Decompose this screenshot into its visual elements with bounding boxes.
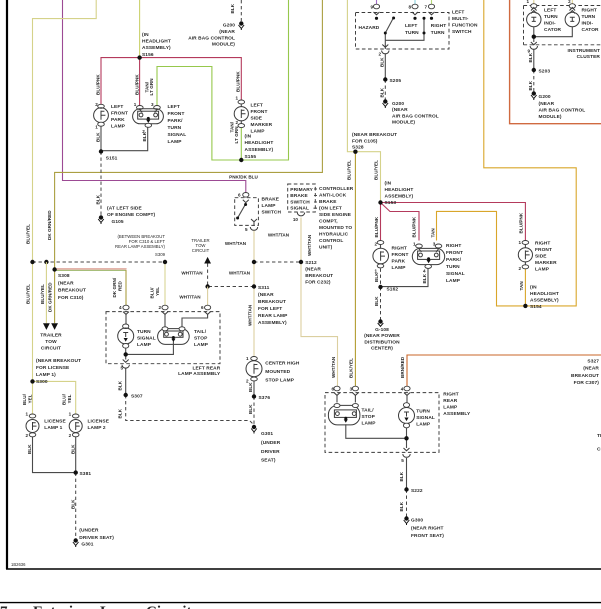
svg-text:(NEAR POWER: (NEAR POWER [364, 333, 400, 339]
svg-text:SIGNAL: SIGNAL [168, 132, 187, 138]
svg-text:BLK: BLK [528, 52, 533, 62]
svg-text:1: 1 [134, 102, 137, 107]
svg-text:LICENSE: LICENSE [44, 418, 66, 424]
svg-text:2: 2 [518, 266, 521, 271]
wire indicator feed left [533, 0, 535, 4]
svg-text:2: 2 [374, 241, 377, 246]
svg-text:MOUNTED TO: MOUNTED TO [319, 225, 352, 231]
svg-text:YEL: YEL [27, 394, 32, 403]
svg-text:2: 2 [235, 120, 238, 125]
svg-text:4: 4 [119, 305, 122, 310]
svg-text:BLK: BLK [96, 194, 101, 204]
svg-text:MODULE): MODULE) [392, 120, 415, 126]
svg-text:BLK: BLK [374, 272, 379, 282]
svg-text:CONTROLLER: CONTROLLER [319, 186, 354, 192]
lamp TURN SIGNAL LAMP (left rear) [118, 324, 134, 348]
left rear pin 4 connector [123, 305, 129, 310]
svg-text:PARK: PARK [392, 258, 406, 264]
wire BLK dashed S162 to G108 [380, 287, 382, 320]
svg-text:OF ENGINE COMPT): OF ENGINE COMPT) [107, 212, 156, 218]
svg-text:(NEAR: (NEAR [258, 292, 274, 298]
connector PRIMARY BRAKE SWITCH SIGNAL box [288, 184, 316, 212]
svg-text:BLU/PNK: BLU/PNK [135, 74, 140, 95]
svg-text:BLU/PNK: BLU/PNK [236, 71, 241, 92]
lamp RIGHT FRONT PARK LAMP [373, 241, 389, 268]
svg-text:FRONT: FRONT [446, 250, 463, 256]
svg-text:LAMP: LAMP [416, 421, 431, 427]
svg-text:1B2636: 1B2636 [11, 562, 26, 567]
G301 license text [79, 528, 114, 548]
svg-text:WHT/TAN: WHT/TAN [268, 232, 290, 237]
svg-text:CENTER): CENTER) [371, 346, 393, 352]
lamp RIGHT FRONT SIDE MARKER LAMP [518, 241, 532, 269]
svg-text:(NEAR: (NEAR [539, 101, 555, 107]
svg-text:UNIT): UNIT) [319, 245, 333, 251]
box RIGHT REAR LAMP ASSEMBLY [325, 393, 439, 453]
svg-text:FOR C232): FOR C232) [305, 279, 331, 285]
lamp TAIL/STOP LAMP (right rear) [328, 404, 360, 425]
wire BLK instrument cluster pin 9 to S203 [533, 49, 535, 70]
G200 cluster text [539, 94, 586, 120]
svg-text:ASSEMBLY): ASSEMBLY) [385, 193, 414, 199]
splice S311 [252, 284, 256, 288]
svg-text:1: 1 [69, 412, 72, 417]
svg-text:PARK/: PARK/ [168, 118, 184, 124]
svg-text:(NEAR BREAKOUT: (NEAR BREAKOUT [352, 132, 397, 138]
svg-text:G200: G200 [539, 94, 551, 100]
svg-text:BRN/RED: BRN/RED [400, 356, 405, 378]
svg-text:MULTI-: MULTI- [452, 16, 469, 22]
svg-text:SIGNAL: SIGNAL [416, 415, 435, 421]
svg-text:FRONT: FRONT [392, 252, 409, 258]
svg-text:INDI-: INDI- [544, 20, 556, 26]
svg-text:9: 9 [370, 5, 373, 10]
lamp TURN SIGNAL LAMP (right rear) [399, 403, 415, 428]
mfs pin 2 connector [382, 45, 388, 48]
left rear pin 2 connector [162, 305, 168, 310]
S327 text [571, 358, 599, 386]
svg-text:LT GRN: LT GRN [234, 126, 239, 144]
svg-text:LEFT: LEFT [111, 104, 123, 110]
svg-text:TURN: TURN [168, 125, 182, 131]
svg-text:BRAKE: BRAKE [319, 199, 337, 205]
left rear pin 5 connector [123, 360, 129, 363]
G301 stop lamps text [261, 431, 281, 464]
svg-text:LAMP: LAMP [535, 267, 550, 273]
svg-text:1: 1 [95, 124, 98, 129]
svg-text:4: 4 [401, 387, 404, 392]
svg-text:(NEAR RIGHT: (NEAR RIGHT [411, 525, 444, 531]
svg-text:BLK: BLK [118, 380, 123, 390]
right rear pin 4 connector [404, 386, 410, 391]
svg-text:5: 5 [120, 366, 123, 371]
svg-text:FOR C310): FOR C310) [58, 295, 84, 301]
svg-text:7-: 7- [0, 604, 13, 609]
wire BLK dashed S376 to G301 [253, 397, 255, 425]
svg-text:FRONT: FRONT [535, 247, 552, 253]
svg-text:LICENSE: LICENSE [88, 418, 110, 424]
svg-text:LAMP: LAMP [446, 278, 461, 284]
wire TAN/LT GRN side marker pin 2 down to S155 [240, 127, 242, 160]
svg-text:BRAKE: BRAKE [262, 197, 280, 203]
svg-text:CLUSTER: CLUSTER [577, 54, 601, 60]
right front park/turn text [446, 243, 465, 284]
svg-text:BLK: BLK [248, 382, 253, 392]
svg-text:LAMP: LAMP [111, 124, 126, 130]
svg-text:BRAKE: BRAKE [290, 193, 308, 199]
right turn indicator text [582, 7, 600, 33]
svg-text:S309: S309 [155, 252, 166, 257]
svg-text:FRONT: FRONT [111, 111, 128, 117]
mfs lever [385, 18, 393, 34]
svg-text:TURN: TURN [416, 408, 430, 414]
svg-text:2: 2 [69, 433, 72, 438]
svg-text:MOUNTED: MOUNTED [265, 369, 290, 375]
svg-text:BLU/YEL: BLU/YEL [40, 284, 45, 304]
brake switch output contact [251, 219, 257, 226]
svg-text:PNK/DK BLU: PNK/DK BLU [229, 174, 258, 179]
svg-text:(NEAR: (NEAR [392, 107, 408, 113]
splice S155 [239, 158, 243, 162]
svg-text:SIDE ENGINE: SIDE ENGINE [319, 212, 352, 218]
G108 text [364, 327, 400, 352]
svg-text:FRONT: FRONT [251, 109, 268, 115]
wire BLK right front park lamp to S162 [380, 269, 382, 288]
wire PPL multi-function switch pin 9 stub [376, 0, 378, 5]
svg-text:LEFT: LEFT [251, 102, 263, 108]
S155 text [245, 134, 274, 161]
left rear tail/stop text [194, 329, 209, 348]
splice S162 [378, 285, 382, 289]
svg-text:PARK: PARK [111, 117, 125, 123]
svg-text:2: 2 [95, 102, 98, 107]
svg-text:3: 3 [433, 241, 436, 246]
right rear internal wires [337, 395, 407, 402]
svg-text:G301: G301 [261, 431, 273, 437]
svg-text:FOR C105): FOR C105) [352, 138, 378, 144]
svg-text:S381: S381 [80, 471, 92, 477]
splice S156 [137, 55, 141, 59]
wire BLK dashed S381 to G301 [75, 473, 77, 538]
svg-text:BLU/PNK: BLU/PNK [412, 216, 417, 237]
svg-text:LAMP 2: LAMP 2 [88, 425, 106, 431]
svg-text:CIRCUIT: CIRCUIT [192, 248, 210, 253]
svg-text:ANTI-LOCK: ANTI-LOCK [319, 193, 347, 199]
ground G200 near air bag control module (switch) [383, 99, 389, 108]
right rear common wire [346, 424, 407, 448]
svg-text:S203: S203 [539, 68, 551, 74]
svg-text:MODULE): MODULE) [212, 42, 235, 48]
svg-text:MARKER: MARKER [251, 122, 273, 128]
svg-text:2: 2 [568, 0, 571, 4]
svg-text:(UNDER: (UNDER [79, 528, 99, 534]
wire WHT/TAN down to left rear tail/stop lamp pin 6 [207, 287, 209, 310]
svg-text:BLK: BLK [118, 408, 123, 418]
svg-text:MARKER: MARKER [535, 260, 557, 266]
svg-text:2: 2 [158, 305, 161, 310]
svg-text:LAMP: LAMP [443, 405, 458, 411]
S328 text [352, 132, 397, 151]
svg-text:BLK: BLK [399, 501, 404, 511]
svg-text:S300: S300 [36, 379, 48, 385]
trailer tow circuit text (center) [191, 238, 209, 253]
brake switch pin 5 connector [250, 227, 257, 230]
svg-text:ASSEMBLY): ASSEMBLY) [245, 147, 274, 153]
wire BLK left front lamps to S151 [101, 125, 148, 152]
svg-text:DISTRIBUTION: DISTRIBUTION [364, 339, 400, 345]
license lamp texts [44, 418, 66, 431]
S308 text [58, 273, 86, 301]
splice S307 [124, 393, 128, 397]
svg-text:LAMP 1): LAMP 1) [36, 372, 56, 378]
wire LT GRN multi-function switch pin 7 stub [431, 0, 433, 5]
right rear tail/stop text [362, 407, 377, 426]
svg-text:STOP: STOP [194, 336, 208, 342]
svg-text:BLU/PNK: BLU/PNK [374, 216, 379, 237]
svg-text:(NEAR BREAKOUT: (NEAR BREAKOUT [36, 358, 81, 364]
ground G108 near power distribution center [378, 319, 384, 326]
wire BRN/RED from right edge to right rear pin 4 [407, 355, 601, 389]
svg-text:WHT/TAN: WHT/TAN [247, 304, 252, 326]
title heading (clipped at bottom edge) [0, 604, 192, 609]
svg-text:STOP LAMP: STOP LAMP [265, 378, 294, 384]
svg-text:YEL: YEL [67, 394, 72, 403]
brake lamp switch text [262, 197, 282, 216]
svg-text:FOR LICENSE: FOR LICENSE [36, 365, 70, 371]
svg-text:ASSEMBLY): ASSEMBLY) [142, 45, 171, 51]
svg-text:COMPT,: COMPT, [319, 219, 338, 225]
svg-text:AIR BAG CONTROL: AIR BAG CONTROL [188, 35, 235, 41]
node junction WHT/TAN [205, 284, 209, 288]
lamp TAIL/STOP LAMP (left rear) [158, 327, 190, 345]
left rear lamp internal wires [126, 314, 208, 328]
left rear lamp common wire [126, 342, 174, 360]
svg-text:LAMP: LAMP [168, 139, 183, 145]
S300 text [36, 358, 81, 385]
svg-text:BLK: BLK [70, 499, 75, 509]
left front park lamp text [111, 104, 128, 130]
wire BLK right rear pin 5 to S222 [406, 458, 408, 490]
S309 text [115, 234, 166, 257]
S311 text [258, 285, 288, 326]
wire TAN S154 to right front park/turn pin 3 [437, 211, 526, 306]
node junction trailer branch [44, 260, 48, 264]
svg-text:TURN: TURN [446, 264, 460, 270]
svg-text:Lamps: Lamps [100, 604, 144, 609]
svg-text:CIRCUIT: CIRCUIT [41, 345, 61, 351]
svg-text:S162: S162 [387, 286, 399, 292]
splice S308 [52, 267, 56, 271]
svg-text:AIR BAG CONTROL: AIR BAG CONTROL [539, 107, 586, 113]
svg-text:BLU/PNK: BLU/PNK [519, 212, 524, 233]
svg-text:FRONT SEAT): FRONT SEAT) [411, 533, 444, 539]
svg-text:ASSEMBLY): ASSEMBLY) [530, 297, 559, 303]
svg-text:LAMP: LAMP [251, 128, 266, 134]
svg-text:CIRCUIT: CIRCUIT [597, 447, 601, 453]
splice S309 [163, 260, 167, 264]
lamp CENTER HIGH MOUNTED STOP LAMP [246, 357, 262, 382]
wire BLK/YEL S328 down to right rear pin 3 [354, 152, 356, 389]
svg-text:Exterior: Exterior [33, 604, 87, 609]
wire BLU/PNK S153 to right front side marker pin 1 [381, 203, 526, 241]
svg-text:LAMP 1: LAMP 1 [44, 425, 62, 431]
svg-text:1: 1 [25, 412, 28, 417]
ground G301 under driver seat (stop lamps) [251, 425, 257, 434]
mfs internal link [385, 18, 424, 49]
controller anti-lock text [319, 186, 354, 251]
svg-text:CATOR: CATOR [582, 27, 600, 33]
node junction on brake switch wire [252, 260, 256, 264]
svg-text:SIGNAL: SIGNAL [290, 206, 309, 212]
wire BLU/YEL dashed breakout to S309 [33, 261, 166, 263]
svg-text:S154: S154 [530, 304, 542, 310]
svg-text:CONTROL: CONTROL [319, 238, 343, 244]
svg-text:S311: S311 [258, 285, 270, 291]
svg-text:MODULE): MODULE) [539, 114, 562, 120]
svg-text:SWITCH: SWITCH [262, 210, 282, 216]
left turn indicator text [544, 7, 562, 33]
svg-text:G105: G105 [112, 219, 124, 225]
wire BLK dashed S307 to G301 [126, 395, 254, 425]
svg-text:LT GRN: LT GRN [149, 78, 154, 96]
S156 text [142, 32, 171, 58]
svg-text:5: 5 [245, 227, 248, 232]
svg-text:S222: S222 [411, 488, 423, 494]
lamp LEFT TURN INDICATOR [527, 4, 541, 27]
svg-text:BLK: BLK [380, 57, 385, 67]
svg-text:HEADLIGHT: HEADLIGHT [245, 140, 274, 146]
svg-text:TAIL/: TAIL/ [362, 407, 375, 413]
svg-text:TRAILER TOW: TRAILER TOW [597, 433, 601, 439]
left rear pin 6 connector [205, 305, 211, 310]
svg-text:(UNDER: (UNDER [261, 440, 281, 446]
svg-text:RIGHT: RIGHT [446, 243, 461, 249]
svg-text:4: 4 [423, 269, 426, 274]
svg-text:LEFT: LEFT [452, 9, 464, 15]
svg-text:DK GRN/RED: DK GRN/RED [47, 282, 52, 312]
svg-text:TRAILER: TRAILER [40, 333, 62, 339]
wire PNK/DK BLU from top to brake lamp switch pin 6 [63, 0, 246, 193]
svg-text:WHT/TAN: WHT/TAN [307, 234, 312, 256]
svg-text:YEL: YEL [155, 287, 160, 296]
svg-text:TOW: TOW [45, 339, 57, 345]
svg-text:BLU/YEL: BLU/YEL [347, 160, 352, 180]
splice S203 [532, 68, 536, 72]
wire BLK dashed S203 to G200 [533, 70, 535, 92]
svg-text:(IN: (IN [142, 32, 149, 38]
wire TAN from top right down to S154 [484, 0, 576, 306]
svg-text:LAMP ASSEMBLY: LAMP ASSEMBLY [178, 371, 221, 377]
wire BLU/YEL branch S300 to license lamp 2 [33, 381, 76, 414]
svg-text:BLU/YEL: BLU/YEL [25, 284, 30, 304]
svg-text:BLK/YEL: BLK/YEL [349, 358, 354, 378]
svg-text:BLK: BLK [248, 404, 253, 414]
switch LEFT MULTI-FUNCTION SWITCH box [356, 13, 450, 50]
center stop lamp text [265, 360, 300, 383]
svg-text:TURN: TURN [137, 329, 151, 335]
svg-text:6: 6 [331, 387, 334, 392]
svg-text:TURN: TURN [544, 14, 558, 20]
svg-text:TURN: TURN [582, 14, 596, 20]
svg-text:Circuit: Circuit [146, 604, 192, 609]
wire BLU/YEL down to trailer tow circuit [45, 262, 47, 323]
svg-text:BLK: BLK [528, 80, 533, 90]
svg-text:8: 8 [408, 5, 411, 10]
svg-text:LAMP: LAMP [194, 342, 209, 348]
svg-text:LAMP: LAMP [362, 420, 377, 426]
wire BLU/PNK S153 to right front park/turn lamp pin 1 [381, 203, 420, 241]
svg-text:LEFT: LEFT [544, 7, 556, 13]
lamp RIGHT TURN INDICATOR [565, 4, 579, 27]
svg-text:WHT/TAN: WHT/TAN [179, 295, 201, 300]
svg-text:BLK: BLK [422, 273, 427, 283]
wire BLU/YEL S328 to S153 [355, 152, 380, 203]
trailer tow arrow up (center) [204, 257, 211, 264]
splice S205 [383, 77, 387, 81]
svg-text:(NEAR: (NEAR [583, 366, 599, 372]
svg-text:HAZARD: HAZARD [359, 25, 380, 31]
svg-text:SIGNAL: SIGNAL [137, 335, 156, 341]
svg-text:10: 10 [293, 217, 299, 222]
mfs right turn contact [430, 17, 433, 20]
svg-text:TAIL/: TAIL/ [194, 329, 207, 335]
wire BLK license lamps to S381 [33, 436, 76, 473]
svg-text:S205: S205 [390, 78, 402, 84]
svg-text:BREAKOUT: BREAKOUT [571, 373, 599, 379]
mfs hazard contact [375, 17, 378, 20]
svg-text:SIDE: SIDE [535, 254, 547, 260]
svg-text:1: 1 [526, 0, 529, 4]
left rear turn signal text [137, 329, 156, 348]
box LEFT REAR LAMP ASSEMBLY [106, 312, 220, 364]
svg-text:(IN: (IN [385, 181, 392, 187]
wire DK GRN/RED branch S308 to left rear turn signal lamp pin 4 [55, 268, 127, 270]
SECTION:FRAME [6, 0, 8, 569]
splice S151 [99, 149, 103, 153]
lamp LEFT FRONT PARK LAMP [94, 104, 109, 126]
svg-text:LEFT REAR: LEFT REAR [192, 366, 220, 372]
svg-text:1: 1 [235, 96, 238, 101]
lamp LICENSE LAMP 1 [26, 414, 39, 437]
ground G105 at left side of engine compt [98, 215, 104, 224]
mfs pin 7 connector [428, 4, 434, 9]
lamp LEFT FRONT PARK/TURN SIGNAL LAMP [133, 106, 164, 128]
svg-text:SIDE: SIDE [251, 115, 263, 121]
svg-text:REAR: REAR [443, 398, 457, 404]
svg-text:RIGHT: RIGHT [443, 392, 458, 398]
wire WHT/TAN brake lamp switch to S311 to center stop lamp [253, 231, 255, 357]
svg-text:RIGHT: RIGHT [535, 241, 550, 247]
wire BLK dashed S222 to G300 [406, 490, 408, 517]
svg-text:2: 2 [25, 433, 28, 438]
svg-text:G200: G200 [392, 101, 404, 107]
wire BLK left rear pin 5 to S307 [125, 369, 127, 396]
svg-text:(AT LEFT SIDE: (AT LEFT SIDE [107, 206, 142, 212]
mfs left turn text [405, 23, 419, 36]
svg-text:S151: S151 [106, 155, 118, 161]
svg-text:(NEAR: (NEAR [58, 280, 74, 286]
svg-text:7: 7 [424, 5, 427, 10]
svg-text:BLK: BLK [70, 444, 75, 454]
wire BLK dashed S205 to G200 [384, 80, 386, 100]
svg-text:SWITCH: SWITCH [452, 29, 472, 35]
svg-text:BLK: BLK [230, 3, 235, 13]
G105 text [107, 206, 156, 225]
svg-text:BLU/YEL: BLU/YEL [374, 160, 379, 180]
svg-text:WHT/TAN: WHT/TAN [181, 270, 203, 275]
svg-text:G301: G301 [81, 542, 93, 548]
right rear turn signal text [416, 408, 435, 427]
